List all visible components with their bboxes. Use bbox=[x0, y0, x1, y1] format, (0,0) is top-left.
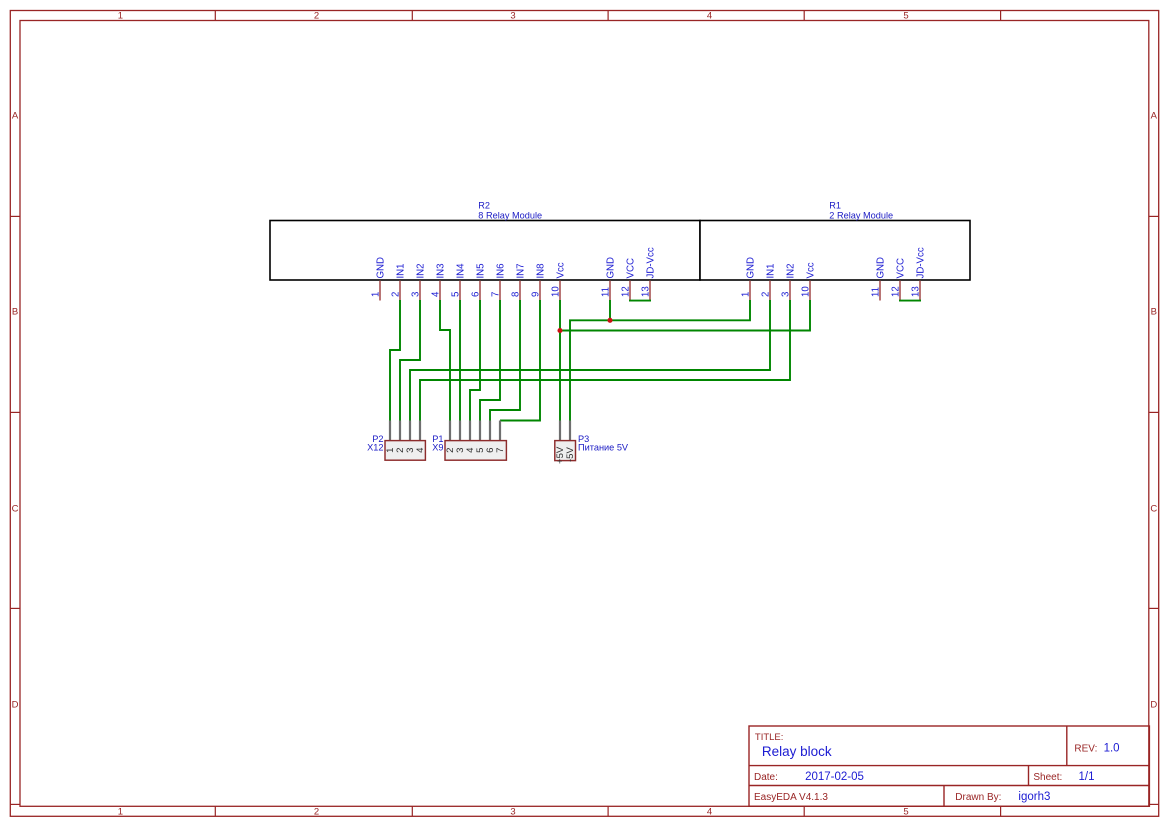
svg-text:10: 10 bbox=[800, 286, 811, 297]
svg-text:2: 2 bbox=[760, 292, 771, 297]
wire P2.4 to R1 IN2 bbox=[420, 300, 790, 421]
svg-text:4: 4 bbox=[707, 10, 712, 21]
svg-text:IN3: IN3 bbox=[435, 263, 446, 278]
svg-text:10: 10 bbox=[550, 286, 561, 297]
svg-text:IN2: IN2 bbox=[785, 263, 796, 278]
pin 6 IN5 of R2 bbox=[479, 281, 481, 301]
svg-text:3: 3 bbox=[510, 10, 515, 21]
svg-text:Drawn By:: Drawn By: bbox=[955, 792, 1001, 803]
svg-text:Date:: Date: bbox=[754, 772, 778, 783]
connector P1 pin 5 stub bbox=[479, 421, 481, 441]
title block bbox=[749, 726, 1149, 806]
svg-text:Vcc: Vcc bbox=[805, 262, 816, 278]
svg-text:2: 2 bbox=[390, 292, 401, 297]
svg-text:IN2: IN2 bbox=[415, 263, 426, 278]
wire +5V net vertical R2 Vcc to P3 +5V bbox=[559, 300, 561, 421]
connector P1 pin 6 stub bbox=[489, 421, 491, 441]
wire +5V net to R1 Vcc bbox=[560, 300, 810, 331]
pin 8 IN7 of R2 bbox=[519, 281, 521, 301]
pin 1 GND of R2 bbox=[379, 281, 381, 301]
svg-text:GND: GND bbox=[375, 257, 386, 279]
svg-text:11: 11 bbox=[600, 287, 611, 297]
svg-text:D: D bbox=[1150, 699, 1157, 710]
connector P3 body bbox=[555, 441, 576, 461]
svg-text:R1: R1 bbox=[829, 201, 841, 211]
svg-text:3: 3 bbox=[510, 807, 515, 818]
svg-text:5: 5 bbox=[903, 10, 908, 21]
wire R2 IN3 to P1.1 bbox=[440, 300, 450, 421]
svg-text:Sheet:: Sheet: bbox=[1033, 772, 1062, 783]
pin 3 IN2 of R1 bbox=[789, 281, 791, 301]
svg-text:2017-02-05: 2017-02-05 bbox=[805, 771, 864, 783]
connector P1 pin 3 stub bbox=[459, 421, 461, 441]
svg-text:GND: GND bbox=[605, 257, 616, 279]
connector P2 pin 4 stub bbox=[419, 421, 421, 441]
svg-text:1.0: 1.0 bbox=[1104, 743, 1120, 755]
pin 11 GND of R2 bbox=[609, 281, 611, 301]
svg-text:13: 13 bbox=[910, 286, 921, 297]
svg-text:JD-Vcc: JD-Vcc bbox=[645, 247, 656, 278]
svg-text:8 Relay Module: 8 Relay Module bbox=[478, 210, 542, 220]
svg-text:IN4: IN4 bbox=[455, 263, 466, 279]
pin 13 JD-Vcc of R2 bbox=[649, 281, 651, 301]
svg-text:7: 7 bbox=[490, 292, 501, 297]
svg-text:9: 9 bbox=[530, 292, 541, 297]
junction dot GND net bbox=[607, 318, 612, 323]
wire R2 VCC to JD-Vcc strap bbox=[629, 300, 651, 302]
svg-text:12: 12 bbox=[890, 286, 901, 297]
connector P1 pin 4 stub bbox=[469, 421, 471, 441]
svg-text:IN1: IN1 bbox=[765, 263, 776, 278]
pin 13 JD-Vcc of R1 bbox=[919, 281, 921, 301]
relay module R1 body bbox=[700, 221, 970, 281]
svg-text:IN5: IN5 bbox=[475, 263, 486, 278]
pin 11 GND of R1 bbox=[879, 281, 881, 301]
pin 9 IN8 of R2 bbox=[539, 281, 541, 301]
svg-text:D: D bbox=[12, 699, 19, 710]
svg-text:VCC: VCC bbox=[895, 258, 906, 278]
svg-text:TITLE:: TITLE: bbox=[755, 732, 784, 743]
svg-text:VCC: VCC bbox=[625, 258, 636, 278]
svg-text:8: 8 bbox=[510, 292, 521, 297]
svg-text:A: A bbox=[1151, 110, 1158, 121]
svg-text:7: 7 bbox=[495, 447, 506, 452]
connector P2 body bbox=[385, 441, 425, 461]
svg-text:13: 13 bbox=[640, 286, 651, 297]
svg-text:3: 3 bbox=[780, 292, 791, 297]
pin 2 IN1 of R1 bbox=[769, 281, 771, 301]
svg-text:X12: X12 bbox=[367, 443, 383, 453]
wire R2 IN7 to P1.5 bbox=[490, 300, 520, 421]
svg-text:4: 4 bbox=[415, 447, 426, 453]
wire R2 IN6 to P1.4 bbox=[480, 300, 500, 421]
svg-text:12: 12 bbox=[620, 286, 631, 297]
pin 4 IN3 of R2 bbox=[439, 281, 441, 301]
svg-text:1/1: 1/1 bbox=[1079, 771, 1095, 783]
svg-text:C: C bbox=[1150, 503, 1157, 514]
svg-text:2: 2 bbox=[314, 807, 319, 818]
wire P2.3 to R1 IN1 bbox=[410, 300, 770, 421]
connector P1 pin 7 stub bbox=[499, 421, 501, 441]
connector P1 pin 2 stub bbox=[449, 421, 451, 441]
pin 10 Vcc of R1 bbox=[809, 281, 811, 301]
connector P3 pin -5V stub bbox=[569, 421, 571, 441]
svg-text:R2: R2 bbox=[478, 201, 490, 211]
pin 5 IN4 of R2 bbox=[459, 281, 461, 301]
svg-text:2 Relay Module: 2 Relay Module bbox=[829, 210, 893, 220]
relay module R2 body bbox=[270, 221, 700, 281]
svg-text:Vcc: Vcc bbox=[555, 262, 566, 278]
svg-text:1: 1 bbox=[740, 292, 751, 297]
wire R2 IN5 to P1.3 bbox=[470, 300, 480, 421]
connector P3 pin +5V stub bbox=[559, 421, 561, 441]
connector P2 pin 3 stub bbox=[409, 421, 411, 441]
svg-text:5: 5 bbox=[903, 807, 908, 818]
svg-text:IN6: IN6 bbox=[495, 263, 506, 278]
wire R2 IN8 to P1.6 bbox=[500, 300, 540, 421]
junction dot +5V net bbox=[557, 328, 562, 333]
svg-text:11: 11 bbox=[870, 287, 881, 297]
svg-text:EasyEDA V4.1.3: EasyEDA V4.1.3 bbox=[754, 792, 828, 803]
svg-text:4: 4 bbox=[430, 291, 441, 297]
svg-text:igorh3: igorh3 bbox=[1018, 791, 1050, 803]
svg-text:-5V: -5V bbox=[565, 446, 576, 462]
svg-text:Питание 5V: Питание 5V bbox=[578, 443, 629, 453]
svg-text:JD-Vcc: JD-Vcc bbox=[915, 247, 926, 278]
wire P2.1 to R2 IN1 bbox=[390, 300, 400, 421]
pin 12 VCC of R2 bbox=[629, 281, 631, 301]
wire R1 VCC to JD-Vcc strap bbox=[899, 300, 921, 302]
svg-text:1: 1 bbox=[118, 10, 123, 21]
svg-text:C: C bbox=[12, 503, 19, 514]
svg-text:B: B bbox=[1151, 306, 1157, 317]
pin 10 Vcc of R2 bbox=[559, 281, 561, 301]
svg-text:GND: GND bbox=[745, 257, 756, 279]
svg-text:IN7: IN7 bbox=[515, 263, 526, 278]
svg-text:GND: GND bbox=[875, 257, 886, 279]
pin 12 VCC of R1 bbox=[899, 281, 901, 301]
pin 7 IN6 of R2 bbox=[499, 281, 501, 301]
svg-text:4: 4 bbox=[707, 807, 712, 818]
svg-text:B: B bbox=[12, 306, 18, 317]
svg-text:REV:: REV: bbox=[1074, 744, 1097, 755]
pin 1 GND of R1 bbox=[749, 281, 751, 301]
svg-text:X9: X9 bbox=[432, 443, 443, 453]
wire GND net P3 -5V to R1 GND bbox=[570, 300, 750, 421]
wire P2.2 to R2 IN2 bbox=[400, 300, 420, 421]
connector P1 body bbox=[445, 441, 506, 461]
connector P2 pin 2 stub bbox=[399, 421, 401, 441]
svg-text:2: 2 bbox=[314, 10, 319, 21]
svg-text:1: 1 bbox=[118, 807, 123, 818]
svg-text:5: 5 bbox=[450, 292, 461, 297]
svg-text:IN1: IN1 bbox=[395, 263, 406, 278]
pin 2 IN1 of R2 bbox=[399, 281, 401, 301]
svg-text:Relay block: Relay block bbox=[762, 744, 832, 759]
connector P2 pin 1 stub bbox=[389, 421, 391, 441]
pin 3 IN2 of R2 bbox=[419, 281, 421, 301]
svg-text:3: 3 bbox=[410, 292, 421, 297]
wire R2 IN4 to P1.2 bbox=[459, 300, 461, 421]
svg-text:A: A bbox=[12, 110, 19, 121]
svg-text:IN8: IN8 bbox=[535, 263, 546, 278]
svg-text:1: 1 bbox=[370, 292, 381, 297]
wire R2 GND pin11 drop bbox=[609, 300, 611, 320]
svg-text:6: 6 bbox=[470, 292, 481, 297]
